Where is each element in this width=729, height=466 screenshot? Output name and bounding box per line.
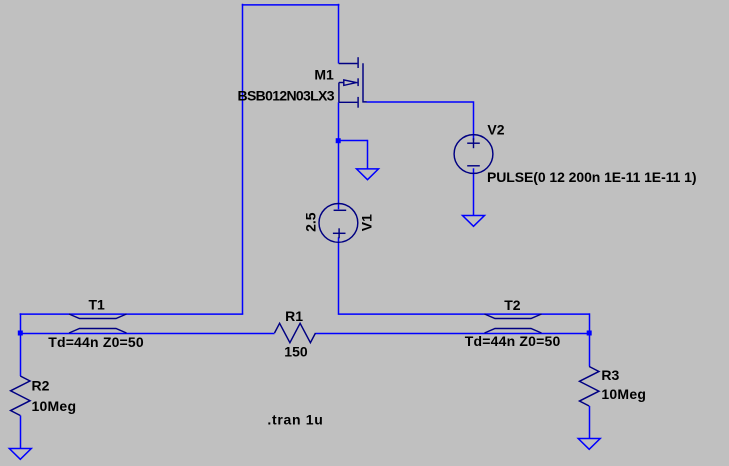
- transmission line T1: [69, 314, 127, 333]
- svg-text:R1: R1: [285, 308, 303, 324]
- junction node at M1 source: [336, 138, 341, 143]
- wire: left drop into bottom node: [20, 313, 22, 333]
- wire: left rail vertical: [242, 4, 244, 315]
- svg-text:2.5: 2.5: [302, 212, 318, 232]
- svg-text:Td=44n Z0=50: Td=44n Z0=50: [465, 333, 561, 349]
- wire: right drop to bottom node: [589, 313, 591, 333]
- ground below R3: [578, 439, 600, 450]
- wire: T1 top line: [20, 313, 244, 315]
- wire: R3 to ground: [589, 406, 591, 439]
- svg-text:BSB012N03LX3: BSB012N03LX3: [238, 87, 335, 103]
- wire: ground branch vertical: [367, 140, 369, 169]
- resistor R2: [11, 376, 31, 416]
- junction node at right bottom: [587, 331, 592, 336]
- wire: V2 bottom to ground: [473, 168, 475, 216]
- wire: M1 drain drop: [338, 4, 340, 64]
- wire: top rail: [242, 4, 340, 6]
- svg-text:10Meg: 10Meg: [32, 398, 77, 414]
- svg-text:PULSE(0 12 200n 1E-11 1E-11 1): PULSE(0 12 200n 1E-11 1E-11 1): [487, 169, 697, 185]
- transmission line T2: [485, 314, 542, 333]
- wire: gate wire to V2: [367, 102, 474, 140]
- voltage source V1: [319, 204, 358, 243]
- ground below V2: [463, 216, 485, 227]
- wire: ground branch horizontal: [339, 140, 368, 142]
- transistor M1: [339, 57, 367, 107]
- resistor R3: [579, 367, 599, 407]
- svg-text:M1: M1: [314, 67, 334, 83]
- svg-text:R2: R2: [32, 378, 50, 394]
- wire: M1 source to V1: [338, 102, 340, 209]
- svg-text:V2: V2: [487, 122, 504, 138]
- wire: node to R2: [20, 334, 22, 377]
- resistor R1: [275, 323, 316, 343]
- svg-text:T1: T1: [89, 297, 106, 313]
- junction node at left bottom: [18, 331, 23, 336]
- wire: node to R3: [589, 334, 591, 367]
- svg-text:V1: V1: [359, 214, 375, 231]
- wire: bottom line right of R1: [316, 333, 590, 335]
- voltage source V2: [454, 135, 493, 174]
- ground near M1: [357, 169, 379, 180]
- svg-text:T2: T2: [504, 297, 521, 313]
- svg-text:R3: R3: [601, 367, 619, 383]
- svg-text:Td=44n Z0=50: Td=44n Z0=50: [48, 334, 144, 350]
- wire: V1 bottom to mid line: [339, 237, 590, 314]
- svg-text:.tran 1u: .tran 1u: [267, 411, 322, 427]
- wire: R2 to ground: [20, 416, 22, 449]
- svg-text:150: 150: [284, 343, 308, 359]
- wire: bottom line left of R1: [20, 333, 275, 335]
- svg-text:10Meg: 10Meg: [601, 386, 646, 402]
- ground below R2: [9, 449, 31, 460]
